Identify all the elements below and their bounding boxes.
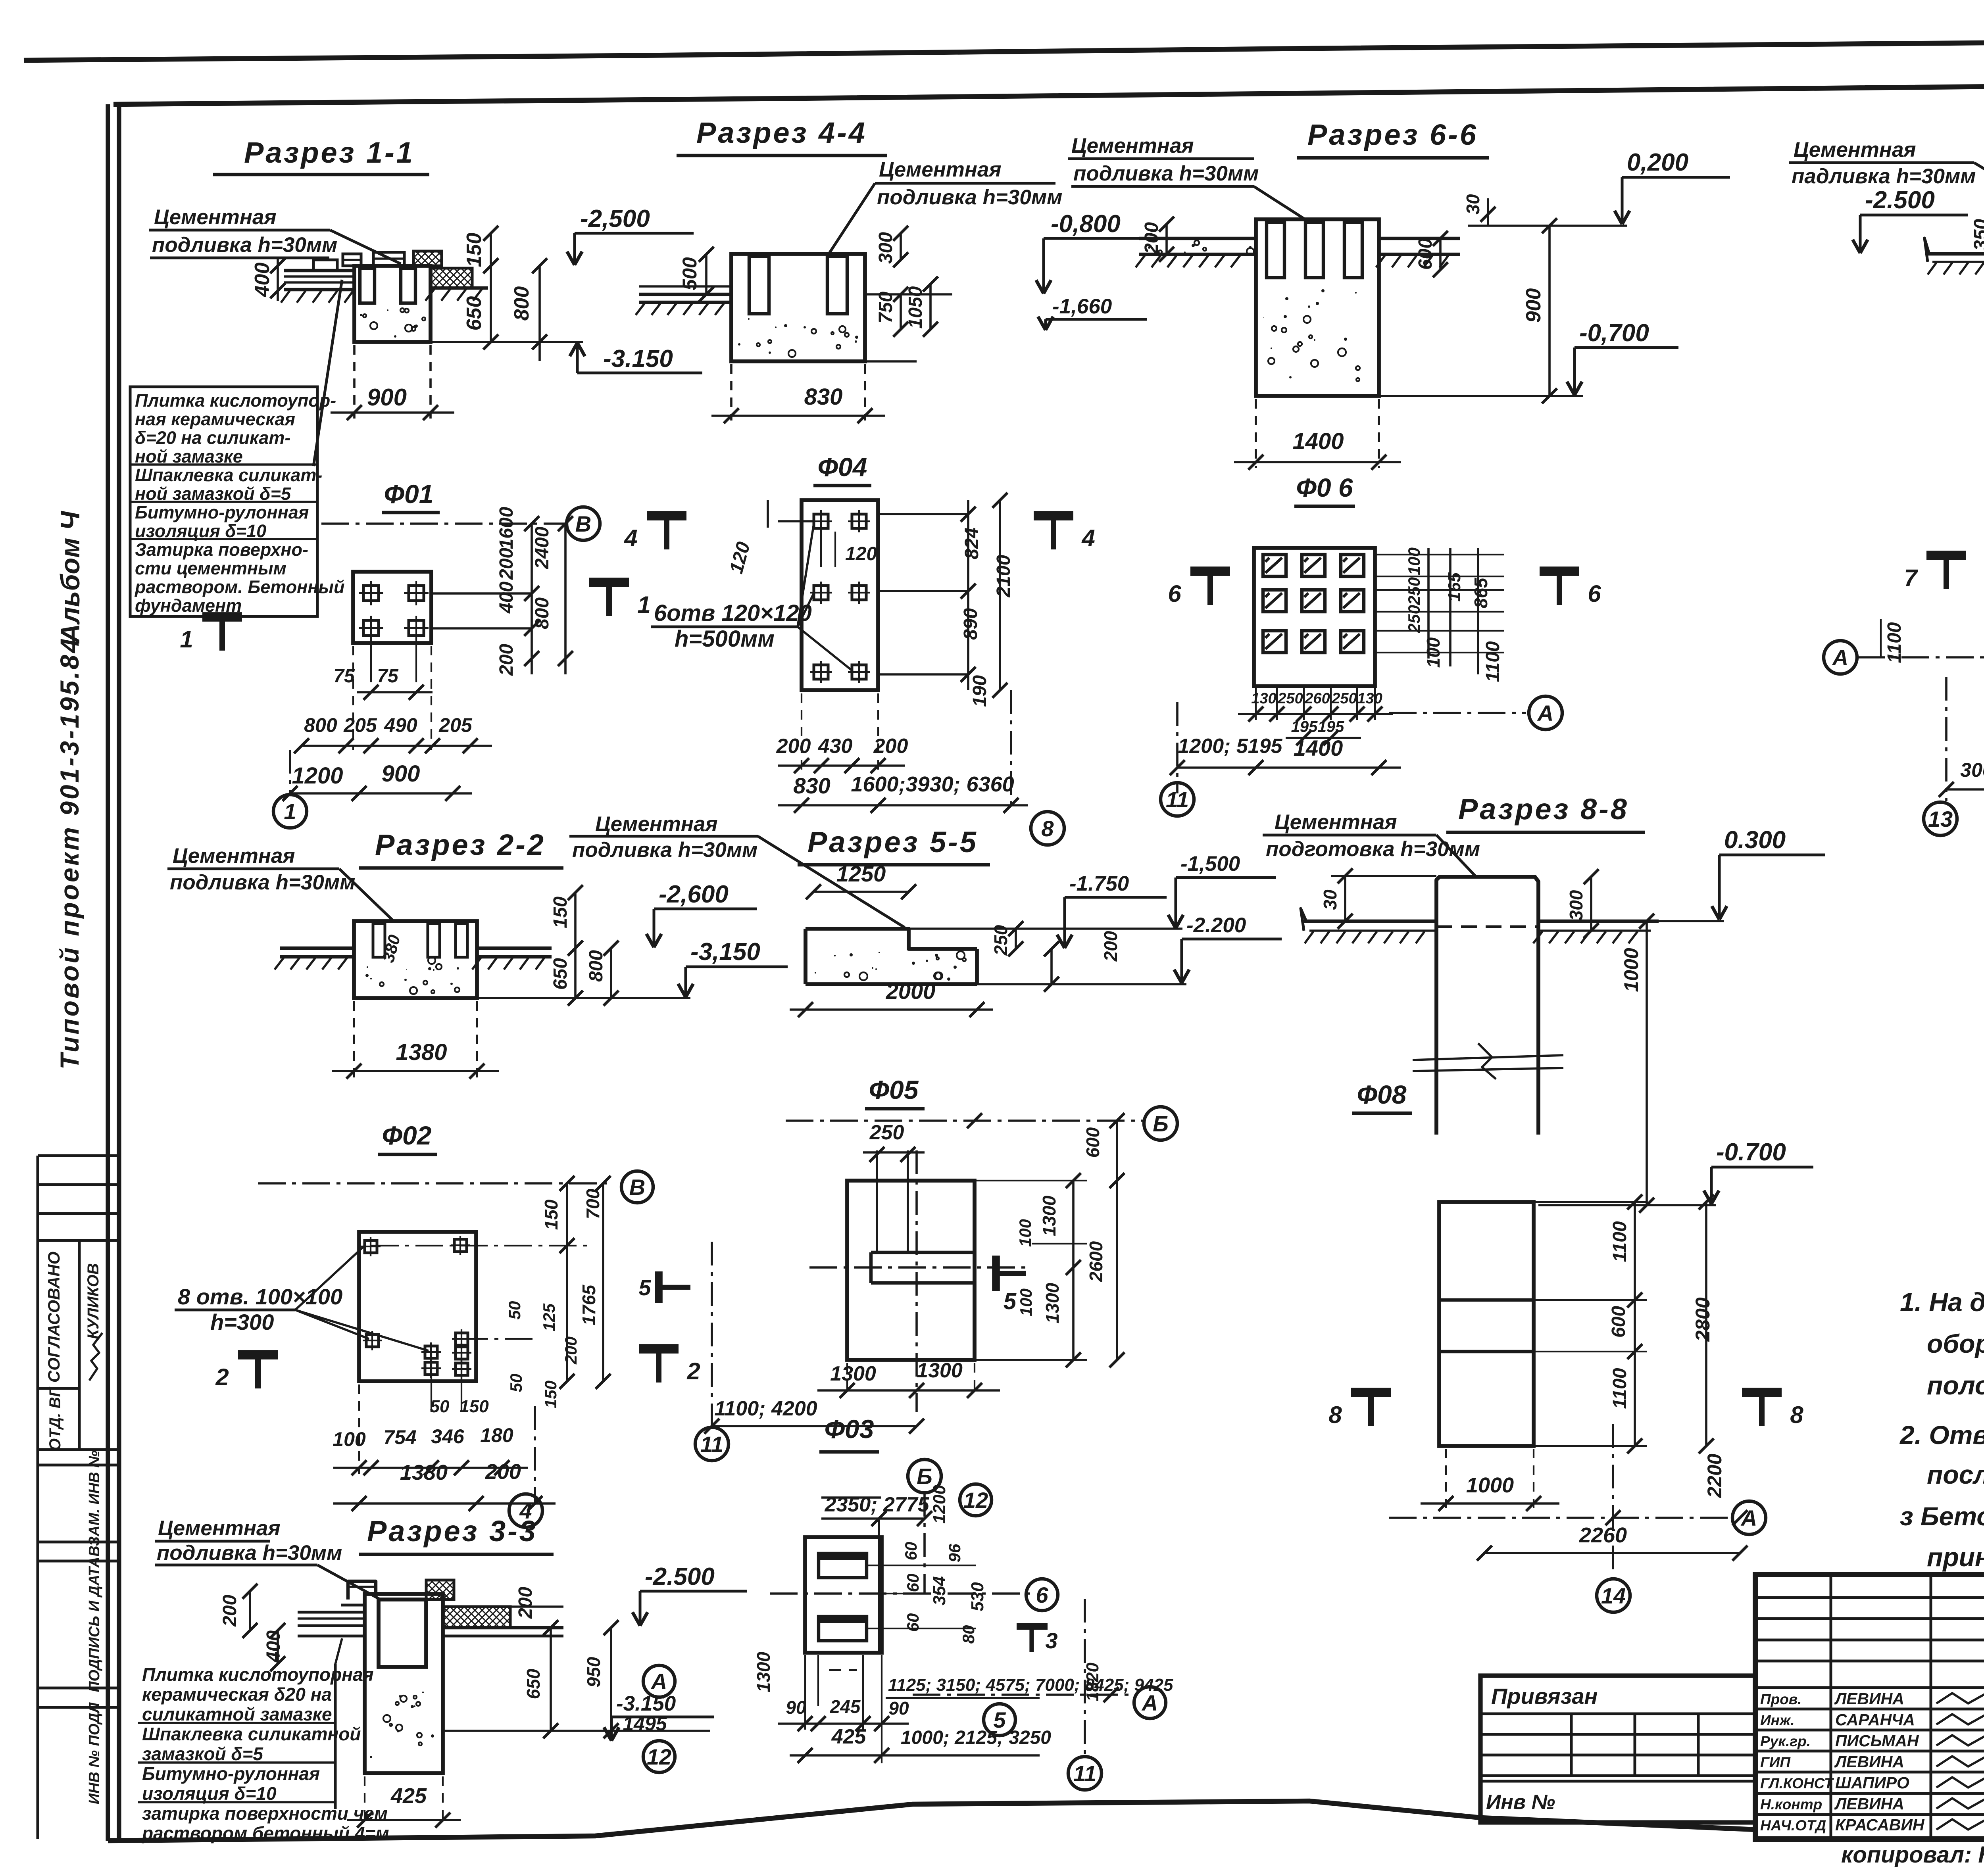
svg-text:-0,700: -0,700 — [1579, 319, 1649, 347]
svg-text:100: 100 — [1016, 1219, 1034, 1247]
svg-text:800: 800 — [586, 950, 607, 982]
svg-text:2: 2 — [215, 1364, 229, 1390]
svg-text:НАЧ.ОТД: НАЧ.ОТД — [1760, 1817, 1826, 1834]
svg-text:400: 400 — [496, 582, 517, 614]
svg-text:принят марки 150.: принят марки 150. — [1927, 1542, 1984, 1572]
svg-text:1: 1 — [637, 591, 650, 618]
svg-text:изоляция δ=10: изоляция δ=10 — [142, 1783, 277, 1804]
svg-text:h=500мм: h=500мм — [675, 626, 775, 652]
svg-text:200: 200 — [485, 1460, 521, 1484]
svg-text:А: А — [1537, 701, 1553, 726]
svg-text:Битумно-рулонная: Битумно-рулонная — [135, 502, 309, 522]
svg-text:ИНВ № ПОДЛ: ИНВ № ПОДЛ — [86, 1702, 103, 1805]
svg-text:-0,800: -0,800 — [1051, 210, 1121, 238]
svg-text:80: 80 — [959, 1625, 978, 1644]
svg-text:ОТД. ВГ: ОТД. ВГ — [46, 1386, 64, 1451]
svg-text:8: 8 — [1790, 1402, 1803, 1428]
svg-text:425: 425 — [390, 1784, 427, 1808]
svg-text:75: 75 — [377, 666, 399, 687]
svg-text:12: 12 — [647, 1744, 671, 1769]
svg-text:1600;3930; 6360: 1600;3930; 6360 — [851, 772, 1014, 796]
svg-text:300: 300 — [1960, 759, 1984, 781]
svg-text:1300: 1300 — [917, 1359, 963, 1382]
svg-text:1: 1 — [284, 799, 296, 824]
svg-text:150: 150 — [463, 233, 486, 267]
svg-text:1300: 1300 — [830, 1362, 876, 1385]
svg-text:900: 900 — [367, 384, 407, 411]
svg-text:после получения оборудования.: после получения оборудования. — [1927, 1460, 1984, 1489]
svg-text:650: 650 — [523, 1669, 544, 1699]
svg-text:1125; 3150; 4575; 7000; 8425;: 1125; 3150; 4575; 7000; 8425; 9425 — [888, 1675, 1173, 1695]
svg-text:2200: 2200 — [1703, 1454, 1726, 1498]
svg-text:425: 425 — [831, 1725, 867, 1748]
svg-text:900: 900 — [1522, 288, 1545, 323]
svg-text:5: 5 — [638, 1275, 651, 1300]
svg-text:150: 150 — [541, 1381, 560, 1408]
svg-text:-1,500: -1,500 — [1180, 852, 1240, 876]
svg-text:ГИП: ГИП — [1760, 1754, 1791, 1770]
svg-text:Разрез 4-4: Разрез 4-4 — [696, 116, 867, 149]
svg-text:подливка h=30мм: подливка h=30мм — [572, 838, 757, 862]
svg-text:11: 11 — [700, 1432, 723, 1457]
svg-text:-2.200: -2.200 — [1186, 914, 1246, 937]
svg-text:430: 430 — [818, 735, 853, 758]
svg-text:354: 354 — [930, 1576, 949, 1605]
svg-text:3: 3 — [1045, 1628, 1057, 1653]
svg-text:2000: 2000 — [886, 979, 936, 1004]
svg-text:1000; 2125; 3250: 1000; 2125; 3250 — [901, 1727, 1051, 1748]
svg-text:75: 75 — [333, 666, 355, 687]
svg-text:4: 4 — [1081, 525, 1095, 551]
svg-text:205: 205 — [343, 714, 377, 736]
svg-text:падливка h=30мм: падливка h=30мм — [1792, 165, 1976, 188]
svg-text:6: 6 — [1168, 580, 1181, 607]
svg-text:Разрез 8-8: Разрез 8-8 — [1458, 793, 1629, 826]
svg-text:Шпаклевка силикатной: Шпаклевка силикатной — [142, 1724, 361, 1744]
svg-text:-2.500: -2.500 — [1865, 186, 1935, 214]
svg-text:Разрез 5-5: Разрез 5-5 — [807, 826, 978, 858]
svg-text:Цементная: Цементная — [1071, 134, 1194, 157]
svg-text:-1.750: -1.750 — [1069, 872, 1129, 895]
svg-text:2600: 2600 — [1086, 1241, 1106, 1282]
svg-text:ГЛ.КОНСТ: ГЛ.КОНСТ — [1760, 1775, 1834, 1792]
svg-text:300: 300 — [1566, 890, 1586, 920]
svg-text:-0.700: -0.700 — [1716, 1139, 1786, 1166]
svg-text:950: 950 — [583, 1657, 604, 1687]
svg-text:ная керамическая: ная керамическая — [135, 409, 295, 429]
svg-text:250: 250 — [1405, 577, 1423, 605]
svg-text:60: 60 — [904, 1574, 922, 1592]
svg-text:-3,150: -3,150 — [690, 938, 760, 966]
svg-text:А: А — [650, 1669, 667, 1694]
svg-text:11: 11 — [1166, 787, 1189, 812]
svg-text:830: 830 — [793, 773, 830, 798]
svg-text:2: 2 — [686, 1358, 700, 1384]
svg-text:400: 400 — [263, 1630, 284, 1663]
svg-text:0,200: 0,200 — [1627, 149, 1688, 176]
svg-text:250: 250 — [869, 1121, 904, 1144]
svg-text:50: 50 — [507, 1374, 525, 1392]
svg-text:195: 195 — [1318, 718, 1344, 735]
svg-text:Ф01: Ф01 — [384, 479, 434, 509]
svg-text:ЛЕВИНА: ЛЕВИНА — [1834, 1753, 1904, 1771]
svg-text:Цементная: Цементная — [158, 1517, 281, 1540]
svg-text:650: 650 — [463, 296, 486, 331]
svg-text:1: 1 — [180, 626, 193, 653]
svg-text:5: 5 — [1004, 1288, 1017, 1314]
svg-text:δ=20 на силикат-: δ=20 на силикат- — [135, 428, 290, 448]
svg-text:350: 350 — [1971, 219, 1984, 251]
svg-text:130: 130 — [1357, 690, 1382, 707]
svg-text:оборудование даны в рабочем: оборудование даны в рабочем — [1927, 1329, 1984, 1358]
svg-text:200: 200 — [1100, 931, 1121, 962]
svg-text:150: 150 — [550, 897, 571, 928]
svg-text:200: 200 — [1141, 222, 1162, 254]
svg-text:1100: 1100 — [1884, 622, 1905, 663]
svg-text:125: 125 — [540, 1303, 558, 1331]
svg-text:Ф0 6: Ф0 6 — [1296, 473, 1353, 502]
svg-text:4: 4 — [519, 1498, 532, 1523]
svg-text:копировал: Корецкая: копировал: Корецкая — [1841, 1842, 1984, 1868]
svg-text:Привязан: Привязан — [1491, 1684, 1598, 1709]
svg-text:11: 11 — [1073, 1761, 1096, 1786]
svg-text:ПИСЬМАН: ПИСЬМАН — [1835, 1732, 1919, 1750]
svg-text:1100: 1100 — [1609, 1368, 1630, 1409]
svg-text:200: 200 — [219, 1595, 240, 1627]
svg-text:0.300: 0.300 — [1724, 826, 1786, 854]
svg-text:500: 500 — [679, 257, 701, 290]
svg-text:900: 900 — [382, 761, 420, 787]
svg-text:1300: 1300 — [753, 1651, 774, 1692]
svg-text:190: 190 — [969, 675, 990, 707]
svg-text:90: 90 — [786, 1697, 806, 1718]
svg-text:затирка поверхности чем: затирка поверхности чем — [142, 1803, 388, 1824]
svg-text:50: 50 — [430, 1397, 450, 1416]
svg-text:250: 250 — [1331, 690, 1357, 707]
svg-text:1400: 1400 — [1294, 735, 1343, 760]
svg-text:Ф08: Ф08 — [1357, 1080, 1407, 1109]
svg-text:250: 250 — [1405, 605, 1423, 633]
svg-text:1400: 1400 — [1292, 428, 1344, 454]
svg-text:Пров.: Пров. — [1760, 1691, 1801, 1707]
svg-text:силикатной замазке: силикатной замазке — [142, 1704, 332, 1724]
svg-text:Ф05: Ф05 — [869, 1075, 919, 1104]
svg-text:13: 13 — [1928, 806, 1953, 831]
svg-text:2400: 2400 — [532, 526, 553, 569]
svg-text:6: 6 — [1588, 580, 1601, 607]
svg-text:Цементная: Цементная — [879, 158, 1002, 181]
svg-text:150: 150 — [459, 1397, 489, 1416]
svg-text:САРАНЧА: САРАНЧА — [1835, 1711, 1915, 1729]
svg-text:Цементная: Цементная — [595, 812, 718, 836]
svg-text:30: 30 — [1463, 194, 1483, 215]
svg-text:100: 100 — [1423, 637, 1444, 668]
svg-text:раствором. Бетонный: раствором. Бетонный — [135, 577, 344, 597]
svg-text:-3.150: -3.150 — [603, 345, 673, 373]
svg-text:200: 200 — [496, 548, 517, 580]
svg-text:200: 200 — [776, 735, 811, 758]
svg-text:Альбом Ч: Альбом Ч — [55, 511, 85, 644]
svg-text:50: 50 — [505, 1301, 524, 1320]
svg-text:180: 180 — [480, 1424, 513, 1446]
svg-text:600: 600 — [1415, 238, 1436, 270]
svg-text:8: 8 — [1041, 816, 1054, 841]
svg-text:Типовой проект 901-3-195.84: Типовой проект 901-3-195.84 — [55, 636, 84, 1070]
svg-text:1300: 1300 — [1039, 1195, 1059, 1236]
svg-text:КРАСАВИН: КРАСАВИН — [1835, 1816, 1925, 1834]
svg-text:2. Отверстия в фундаментах выв: 2. Отверстия в фундаментах выверить — [1899, 1420, 1984, 1450]
svg-text:100: 100 — [1405, 547, 1423, 575]
svg-text:ЛЕВИНА: ЛЕВИНА — [1834, 1690, 1904, 1708]
svg-text:Цементная: Цементная — [154, 205, 277, 229]
svg-text:200: 200 — [496, 644, 517, 676]
svg-text:Разрез 2-2: Разрез 2-2 — [375, 828, 546, 861]
svg-text:1100: 1100 — [1609, 1221, 1630, 1262]
svg-text:Инж.: Инж. — [1760, 1712, 1794, 1728]
svg-text:1495: 1495 — [623, 1713, 667, 1735]
svg-text:130: 130 — [1251, 690, 1276, 707]
svg-text:ПОДПИСЬ И ДАТА: ПОДПИСЬ И ДАТА — [86, 1557, 103, 1692]
svg-text:-2,500: -2,500 — [580, 205, 650, 232]
svg-text:Ф04: Ф04 — [818, 452, 867, 482]
svg-text:1100; 4200: 1100; 4200 — [714, 1397, 817, 1420]
svg-text:Разрез 6-6: Разрез 6-6 — [1307, 118, 1478, 151]
svg-text:300: 300 — [875, 232, 896, 264]
svg-text:165: 165 — [1445, 572, 1464, 602]
svg-text:1200: 1200 — [292, 763, 343, 789]
svg-text:КУЛИКОВ: КУЛИКОВ — [85, 1263, 102, 1339]
svg-text:Цементная: Цементная — [1275, 810, 1397, 834]
svg-text:600: 600 — [1082, 1127, 1103, 1158]
svg-text:60: 60 — [904, 1613, 922, 1632]
svg-text:205: 205 — [438, 714, 473, 736]
svg-text:Ф03: Ф03 — [825, 1414, 874, 1444]
svg-text:5: 5 — [993, 1707, 1006, 1732]
svg-text:400: 400 — [251, 263, 274, 298]
svg-text:2800: 2800 — [1692, 1297, 1714, 1342]
svg-text:150: 150 — [541, 1199, 561, 1230]
svg-text:865: 865 — [1471, 577, 1491, 608]
svg-text:800: 800 — [304, 714, 337, 736]
svg-text:1050: 1050 — [905, 286, 926, 328]
svg-text:200: 200 — [561, 1336, 580, 1365]
svg-text:1000: 1000 — [1466, 1473, 1514, 1497]
svg-text:4: 4 — [624, 525, 637, 551]
svg-text:-1,660: -1,660 — [1052, 295, 1112, 318]
svg-text:ШАПИРО: ШАПИРО — [1835, 1774, 1909, 1792]
svg-text:1300: 1300 — [1042, 1283, 1063, 1323]
svg-text:раствором бетонный 4=м: раствором бетонный 4=м — [141, 1823, 389, 1843]
svg-text:7: 7 — [1904, 565, 1918, 591]
svg-text:800: 800 — [532, 597, 553, 629]
svg-text:200: 200 — [515, 1587, 536, 1619]
svg-text:Инв №: Инв № — [1486, 1791, 1555, 1814]
svg-text:Разрез 1-1: Разрез 1-1 — [244, 136, 415, 169]
svg-text:А: А — [1832, 645, 1848, 670]
svg-text:подливка h=30мм: подливка h=30мм — [157, 1541, 342, 1565]
svg-text:А: А — [1141, 1690, 1158, 1715]
svg-text:Битумно-рулонная: Битумно-рулонная — [142, 1763, 320, 1784]
svg-text:Плитка кислотоупорная: Плитка кислотоупорная — [142, 1664, 374, 1685]
svg-text:346: 346 — [431, 1425, 465, 1448]
svg-text:260: 260 — [1304, 690, 1330, 707]
svg-text:Рук.гр.: Рук.гр. — [1760, 1733, 1811, 1749]
svg-text:12: 12 — [963, 1488, 988, 1513]
svg-text:положении.: положении. — [1927, 1371, 1984, 1400]
svg-text:-2,600: -2,600 — [659, 881, 729, 908]
svg-text:з Бетон для фундаментов под об: з Бетон для фундаментов под оборудование — [1900, 1502, 1984, 1531]
svg-text:подливка h=30мм: подливка h=30мм — [152, 233, 337, 257]
svg-text:600: 600 — [1608, 1306, 1629, 1338]
svg-text:СОГЛАСОВАНО: СОГЛАСОВАНО — [44, 1252, 63, 1383]
svg-text:керамическая δ20 на: керамическая δ20 на — [142, 1684, 332, 1705]
svg-text:490: 490 — [384, 714, 417, 736]
svg-text:1. На данном листе фундаменты: 1. На данном листе фундаменты под — [1900, 1287, 1984, 1317]
svg-text:1000: 1000 — [1620, 948, 1642, 992]
svg-text:В: В — [575, 511, 591, 536]
svg-text:14: 14 — [1601, 1583, 1626, 1608]
svg-text:6: 6 — [1036, 1582, 1048, 1607]
svg-text:подливка h=30мм: подливка h=30мм — [1073, 162, 1259, 185]
svg-text:Ф02: Ф02 — [382, 1121, 432, 1150]
svg-text:h=300: h=300 — [210, 1310, 274, 1335]
svg-text:Затирка поверхно-: Затирка поверхно- — [135, 540, 308, 560]
svg-text:830: 830 — [804, 384, 843, 410]
svg-text:245: 245 — [830, 1696, 861, 1717]
svg-text:890: 890 — [960, 608, 981, 640]
svg-text:В: В — [629, 1175, 645, 1200]
svg-text:1380: 1380 — [400, 1461, 448, 1484]
svg-text:сти цементным: сти цементным — [135, 558, 286, 578]
svg-text:замазкой δ=5: замазкой δ=5 — [142, 1744, 263, 1764]
svg-text:Плитка кислотоупор-: Плитка кислотоупор- — [135, 390, 336, 411]
svg-text:А: А — [1740, 1505, 1757, 1530]
svg-text:8: 8 — [1328, 1402, 1342, 1428]
svg-text:Н.контр: Н.контр — [1760, 1796, 1822, 1813]
svg-text:Цементная: Цементная — [173, 844, 295, 868]
svg-text:1765: 1765 — [579, 1284, 599, 1325]
svg-text:ЛЕВИНА: ЛЕВИНА — [1834, 1795, 1904, 1813]
svg-text:1100: 1100 — [1482, 641, 1503, 682]
svg-text:650: 650 — [550, 958, 571, 990]
svg-text:754: 754 — [383, 1426, 416, 1448]
svg-text:2260: 2260 — [1579, 1523, 1627, 1547]
svg-text:Шпаклевка силикат-: Шпаклевка силикат- — [135, 465, 322, 485]
svg-text:6отв 120×120: 6отв 120×120 — [654, 600, 812, 626]
svg-text:824: 824 — [961, 528, 982, 559]
svg-text:800: 800 — [510, 286, 533, 321]
svg-text:195: 195 — [1291, 718, 1318, 735]
svg-text:30: 30 — [1320, 889, 1340, 910]
svg-text:100: 100 — [333, 1428, 366, 1450]
svg-text:1380: 1380 — [396, 1039, 447, 1065]
svg-text:-2.500: -2.500 — [645, 1563, 715, 1590]
svg-text:750: 750 — [875, 292, 896, 323]
svg-text:1200: 1200 — [930, 1485, 949, 1524]
svg-text:Б: Б — [1153, 1111, 1169, 1136]
svg-text:подливка h=30мм: подливка h=30мм — [877, 186, 1062, 209]
svg-text:2100: 2100 — [993, 555, 1014, 597]
svg-text:200: 200 — [873, 735, 908, 758]
svg-text:Цементная: Цементная — [1794, 138, 1916, 161]
svg-text:1200; 5195: 1200; 5195 — [1178, 735, 1282, 758]
svg-text:96: 96 — [945, 1544, 964, 1562]
svg-text:90: 90 — [888, 1698, 909, 1719]
svg-text:1600: 1600 — [496, 507, 517, 549]
svg-text:60: 60 — [902, 1542, 920, 1561]
svg-text:250: 250 — [1277, 690, 1303, 707]
svg-text:700: 700 — [583, 1189, 603, 1219]
svg-text:1250: 1250 — [836, 861, 886, 886]
svg-text:120: 120 — [845, 543, 877, 565]
svg-text:100: 100 — [1017, 1288, 1035, 1316]
svg-text:530: 530 — [968, 1582, 987, 1611]
svg-text:подливка h=30мм: подливка h=30мм — [170, 871, 355, 894]
